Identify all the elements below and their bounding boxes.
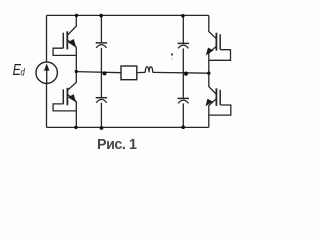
node: bottom rail / right cap leg bbox=[181, 125, 185, 129]
wire: bottom DC rail bbox=[47, 126, 209, 128]
wire: load right segment bbox=[153, 71, 209, 74]
node: top rail / right cap leg bbox=[181, 14, 185, 18]
resistor R load box bbox=[121, 66, 137, 80]
transistor Q4 gate bar bbox=[219, 90, 221, 105]
stray mark near right cap leg bbox=[171, 53, 173, 56]
wire: left capacitor leg lower bbox=[100, 103, 102, 128]
capacitor C1 bbox=[96, 43, 107, 48]
node: left leg midpoint bbox=[75, 70, 78, 73]
capacitor C2 bbox=[96, 98, 107, 103]
transistor Q2 channel bar bbox=[66, 88, 68, 105]
source Ed circle bbox=[36, 62, 57, 83]
wire: top DC rail bbox=[47, 14, 209, 16]
transistor Q4 emitter arrow bbox=[206, 99, 213, 106]
transistor Q1 gate lead bbox=[53, 48, 76, 55]
transistor Q3 gate bar bbox=[219, 34, 221, 49]
svg-text:Ed: Ed bbox=[13, 61, 26, 79]
source Ed arrow bbox=[44, 63, 49, 84]
transistor Q1 gate bar bbox=[62, 33, 64, 49]
wire: left source rail bbox=[46, 15, 48, 127]
inductor L bbox=[145, 67, 152, 73]
wire: right capacitor leg lower bbox=[182, 103, 184, 127]
transistor Q4 collector wire bbox=[209, 73, 217, 94]
node: top rail / Q1 collector bbox=[75, 14, 78, 17]
transistor Q3 emitter arrow bbox=[206, 48, 214, 56]
wire: left capacitor leg upper bbox=[100, 15, 102, 43]
transistor Q3 collector wire bbox=[209, 15, 217, 38]
transistor Q1 emitter wire bbox=[67, 40, 76, 72]
capacitor C4 bbox=[178, 98, 189, 103]
node: bottom rail / left cap leg bbox=[100, 126, 104, 130]
node: top rail / left cap leg bbox=[99, 14, 103, 18]
transistor Q3 emitter wire bbox=[209, 46, 217, 73]
transistor Q1 channel bar bbox=[66, 31, 68, 49]
transistor Q2 emitter wire bbox=[67, 94, 76, 127]
transistor Q4 channel bar bbox=[215, 88, 217, 106]
node: bottom rail / Q2 emitter bbox=[74, 126, 77, 129]
node: load wire / right cap leg bbox=[184, 72, 188, 76]
transistor Q4 emitter wire bbox=[209, 99, 217, 128]
svg-text:Рис. 1: Рис. 1 bbox=[97, 137, 137, 153]
capacitor C3 bbox=[178, 43, 189, 48]
wire: right capacitor leg middle bbox=[182, 48, 184, 98]
transistor Q1 emitter arrow bbox=[68, 39, 76, 48]
transistor Q3 gate lead bbox=[209, 50, 231, 61]
node: right leg midpoint bbox=[207, 72, 210, 75]
transistor Q2 emitter arrow bbox=[68, 94, 76, 102]
wire: load left segment bbox=[76, 72, 121, 73]
transistor Q1 collector wire bbox=[67, 15, 76, 35]
transistor Q2 gate bar bbox=[62, 89, 64, 104]
transistor Q2 collector wire bbox=[67, 72, 76, 91]
wire: load middle segment bbox=[137, 71, 146, 73]
node: load wire / left cap leg bbox=[103, 71, 107, 75]
transistor Q3 channel bar bbox=[215, 33, 217, 51]
wire: right capacitor leg upper bbox=[182, 15, 184, 43]
wire: left capacitor leg middle bbox=[100, 48, 102, 98]
transistor Q4 gate lead bbox=[209, 105, 231, 115]
transistor Q2 gate lead bbox=[53, 104, 76, 111]
